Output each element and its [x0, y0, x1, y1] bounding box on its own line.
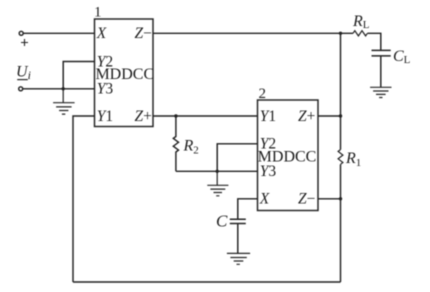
- svg-text:R2: R2: [183, 137, 199, 156]
- svg-text:X: X: [259, 191, 270, 208]
- label MDDCC (U2): [258, 148, 317, 165]
- wire Z- stub (U2 to right rail): [318, 198, 341, 200]
- pin label X (U2): [259, 191, 270, 208]
- label 2: [259, 86, 267, 102]
- label CL: [393, 48, 411, 66]
- pin label Z- (U2): [298, 191, 315, 208]
- wire input negative to Y3: [23, 88, 95, 90]
- plus sign: [21, 39, 28, 46]
- svg-text:X: X: [96, 25, 107, 42]
- label MDDCC (U1): [95, 66, 154, 83]
- wire Z+ net (U1 to U2 Y1): [153, 115, 258, 117]
- wire X (U2) to capacitor C: [238, 199, 258, 219]
- wire C to ground: [237, 224, 239, 254]
- svg-text:2: 2: [259, 86, 267, 102]
- svg-text:Y1: Y1: [260, 108, 276, 125]
- resistor R1: [338, 150, 343, 165]
- label C: [216, 212, 228, 231]
- label 1: [94, 5, 102, 21]
- wire feedback bottom: [73, 281, 341, 283]
- wire Z+ stub (U2 to right rail): [318, 115, 341, 117]
- pin label Y3 (U2): [260, 163, 277, 180]
- block U1 MDDCC rectangle: [95, 19, 154, 127]
- pin label Y1 (U2): [260, 108, 276, 125]
- label Ui: [16, 64, 31, 83]
- svg-text:Z−: Z−: [135, 25, 152, 42]
- terminal input negative: [19, 87, 23, 91]
- underline of Ui: [17, 79, 28, 81]
- svg-text:Y1: Y1: [97, 108, 113, 125]
- ground G-CL: [370, 87, 391, 97]
- svg-text:1: 1: [94, 5, 102, 21]
- junction Z- / right rail: [339, 197, 342, 200]
- junction Y2/Y3 (U1): [62, 87, 65, 90]
- pin label Z- (U1): [135, 25, 152, 42]
- svg-text:Y3: Y3: [97, 80, 114, 97]
- pin label Y2 (U1): [97, 53, 113, 70]
- resistor R2: [173, 116, 178, 171]
- svg-text:R1: R1: [345, 150, 361, 169]
- junction Z+ / right rail: [339, 114, 342, 117]
- capacitor CL: [372, 50, 391, 56]
- label R2: [183, 137, 199, 156]
- wire input positive to X: [23, 32, 94, 34]
- pin label Z+ (U2): [298, 108, 315, 125]
- wire R2 bottom to Y3 (U2): [176, 170, 258, 172]
- ground G2: [207, 171, 228, 196]
- ground G3: [227, 253, 250, 264]
- terminal input positive: [19, 31, 23, 35]
- svg-text:Z+: Z+: [298, 108, 315, 125]
- junction R2 top: [174, 114, 177, 117]
- svg-text:CL: CL: [393, 48, 411, 66]
- junction Z- net / right rail: [339, 32, 342, 35]
- capacitor C: [230, 219, 246, 223]
- resistor RL: [353, 31, 367, 36]
- svg-text:C: C: [216, 212, 228, 231]
- wire CL to ground: [380, 56, 382, 87]
- label R1: [345, 150, 361, 169]
- block U2 MDDCC rectangle: [258, 100, 319, 211]
- wire right rail lower: [340, 164, 342, 282]
- label RL: [352, 13, 370, 31]
- wire Y2 loop (U2): [217, 144, 257, 172]
- pin label X (U1): [96, 25, 107, 42]
- svg-text:Y3: Y3: [260, 163, 277, 180]
- wire feedback left (Y1 of U1): [73, 116, 95, 282]
- pin label Y1 (U1): [97, 108, 113, 125]
- pin label Z+ (U1): [135, 108, 152, 125]
- svg-text:Z−: Z−: [298, 191, 315, 208]
- wire Y2 to Y3 (U1): [63, 62, 94, 89]
- wire RL to CL: [367, 33, 380, 50]
- svg-text:Z+: Z+: [135, 108, 152, 125]
- wire right rail upper: [340, 33, 342, 149]
- ground G1: [53, 89, 75, 114]
- wire Z- net (U1 to right rail): [153, 32, 353, 34]
- pin label Y3 (U1): [97, 80, 114, 97]
- svg-text:RL: RL: [352, 13, 370, 31]
- junction Y3/Y2/ground (U2): [216, 170, 219, 173]
- pin label Y2 (U2): [260, 136, 276, 153]
